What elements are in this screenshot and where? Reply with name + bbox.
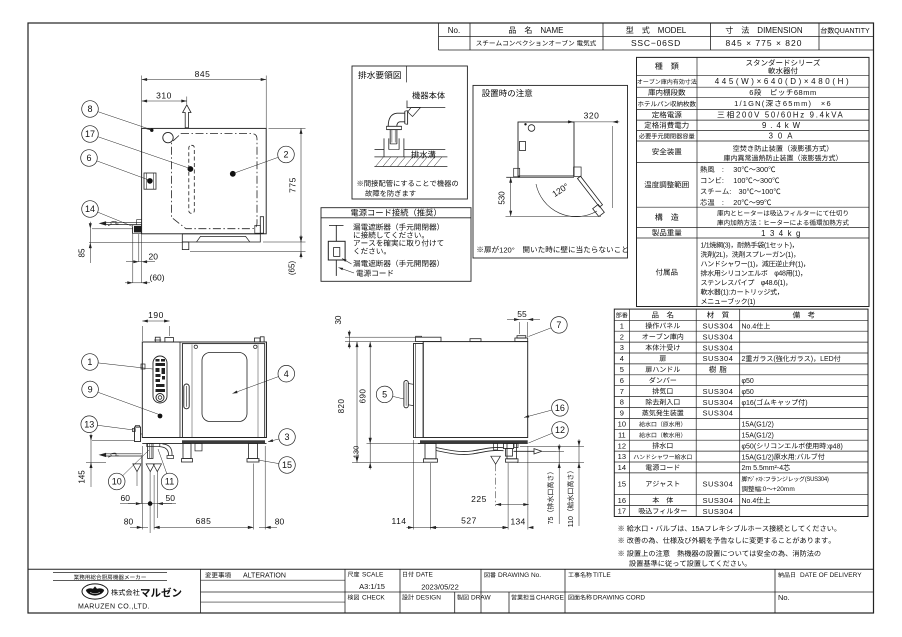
svg-text:30: 30 — [739, 187, 747, 196]
svg-text:φ48.6(1): φ48.6(1) — [761, 280, 785, 287]
svg-text:80: 80 — [124, 517, 134, 527]
svg-text:134: 134 — [510, 517, 525, 527]
svg-text:DATE OF DELIVERY: DATE OF DELIVERY — [800, 572, 862, 579]
svg-text:3: 3 — [284, 432, 289, 442]
svg-text:(1): (1) — [747, 261, 755, 268]
svg-text:SUS304: SUS304 — [702, 480, 733, 489]
svg-text:DIMENSION: DIMENSION — [757, 26, 803, 35]
svg-text:20: 20 — [733, 198, 741, 207]
svg-text:NAME: NAME — [540, 26, 563, 35]
svg-text:(1): (1) — [747, 299, 755, 306]
svg-text:145: 145 — [78, 470, 87, 484]
svg-text:LED: LED — [820, 356, 834, 363]
svg-text:320: 320 — [584, 111, 600, 121]
svg-text:φ16(: φ16( — [742, 400, 757, 407]
svg-text:30A: 30A — [769, 132, 798, 141]
svg-text:): ) — [805, 400, 807, 407]
svg-text:2m 5.5mm²-4: 2m 5.5mm²-4 — [742, 465, 784, 472]
svg-text:(1): (1) — [785, 252, 793, 259]
svg-text:No.4: No.4 — [742, 323, 757, 330]
svg-text:SUS304: SUS304 — [702, 409, 733, 418]
svg-text:8: 8 — [620, 398, 624, 407]
svg-text:9.4kW: 9.4kW — [762, 121, 804, 130]
svg-text::φ48): :φ48) — [826, 443, 843, 450]
svg-text:190: 190 — [148, 310, 164, 320]
svg-text:1/1: 1/1 — [701, 243, 710, 250]
svg-text:(SUS304): (SUS304) — [805, 477, 829, 483]
svg-text:775: 775 — [288, 177, 298, 193]
svg-text:No.4: No.4 — [742, 498, 757, 505]
svg-text:527: 527 — [461, 516, 477, 526]
svg-text:300: 300 — [760, 176, 772, 185]
svg-text:DESIGN: DESIGN — [416, 595, 441, 602]
svg-text::0: :0 — [761, 486, 767, 493]
svg-text:55: 55 — [517, 309, 527, 319]
svg-text:3: 3 — [620, 343, 624, 352]
svg-text:1: 1 — [620, 321, 624, 330]
svg-text:DATE: DATE — [416, 572, 434, 579]
svg-text:φ50(: φ50( — [742, 443, 757, 450]
svg-text:30: 30 — [733, 165, 741, 174]
svg-text:(1): (1) — [792, 271, 800, 278]
svg-text:(1):: (1): — [721, 290, 731, 297]
svg-text:120°: 120° — [499, 245, 515, 254]
svg-text:12: 12 — [555, 425, 565, 435]
svg-text:+20mm: +20mm — [773, 486, 795, 493]
svg-text:SUS304: SUS304 — [702, 321, 733, 330]
svg-text:7: 7 — [556, 320, 561, 330]
svg-text:60: 60 — [121, 493, 131, 503]
svg-text:7: 7 — [620, 387, 624, 396]
svg-text:15A(G1/2): 15A(G1/2) — [742, 432, 774, 439]
svg-text:15A(G1/2): 15A(G1/2) — [742, 422, 774, 429]
svg-text:SUS304: SUS304 — [702, 507, 733, 516]
svg-text:9: 9 — [88, 385, 93, 395]
svg-text:(65): (65) — [288, 261, 297, 276]
svg-text:): ) — [790, 243, 792, 250]
svg-text:2: 2 — [742, 356, 746, 363]
svg-text:75: 75 — [548, 517, 555, 525]
svg-text:ALTERATION: ALTERATION — [243, 573, 286, 580]
svg-text:SUS304: SUS304 — [702, 398, 733, 407]
svg-text:300: 300 — [756, 165, 768, 174]
svg-text:820: 820 — [337, 399, 346, 414]
svg-text:SCALE: SCALE — [362, 572, 384, 579]
svg-text:SUS304: SUS304 — [702, 496, 733, 505]
svg-text:85: 85 — [78, 248, 87, 257]
svg-text:): ) — [811, 356, 813, 363]
svg-text:CHARGE: CHARGE — [536, 595, 564, 602]
svg-text:13: 13 — [84, 419, 94, 429]
svg-text:2: 2 — [620, 332, 624, 341]
svg-text:114: 114 — [391, 516, 406, 526]
svg-text:6: 6 — [620, 376, 624, 385]
svg-text:30: 30 — [334, 315, 343, 324]
svg-text:1/1GN(: 1/1GN( — [734, 99, 765, 108]
svg-text:SUS304: SUS304 — [702, 387, 733, 396]
svg-text:530: 530 — [498, 191, 507, 205]
svg-text:8: 8 — [87, 104, 92, 114]
svg-text:65mm): 65mm) — [783, 99, 812, 108]
svg-text:QUANTITY: QUANTITY — [834, 28, 870, 35]
svg-text:690: 690 — [359, 389, 368, 404]
svg-text:445(W)×640(D)×480(H): 445(W)×640(D)×480(H) — [715, 77, 851, 86]
svg-text:99: 99 — [756, 198, 764, 207]
svg-text::: : — [795, 454, 797, 461]
svg-text:15A(G1/2): 15A(G1/2) — [742, 454, 774, 461]
svg-text:12: 12 — [618, 441, 626, 450]
svg-text::: : — [722, 165, 724, 174]
svg-text:11: 11 — [165, 477, 174, 487]
svg-text:(60): (60) — [150, 273, 165, 283]
svg-text:10: 10 — [112, 477, 122, 487]
svg-text:(2L): (2L) — [714, 252, 725, 259]
svg-text:845 × 775 × 820: 845 × 775 × 820 — [726, 38, 803, 48]
svg-text:2: 2 — [283, 150, 288, 160]
svg-text:φ48: φ48 — [774, 271, 786, 278]
svg-text:16: 16 — [555, 403, 565, 413]
svg-text:SUS304: SUS304 — [702, 354, 733, 363]
svg-text:845: 845 — [195, 69, 211, 79]
svg-text:No.: No. — [448, 26, 460, 35]
svg-text:1: 1 — [87, 357, 92, 367]
svg-text:SUS304: SUS304 — [702, 332, 733, 341]
svg-text:5: 5 — [620, 365, 624, 374]
svg-text:MARUZEN CO.,LTD.: MARUZEN CO.,LTD. — [78, 604, 150, 611]
svg-text:134kg: 134kg — [761, 229, 805, 238]
svg-text:13: 13 — [618, 452, 626, 461]
svg-text:14: 14 — [618, 463, 626, 472]
svg-text:TITLE: TITLE — [593, 572, 611, 579]
svg-text:4: 4 — [620, 354, 624, 363]
svg-text:110: 110 — [568, 516, 575, 527]
svg-text:11: 11 — [618, 430, 626, 439]
svg-text:14: 14 — [85, 204, 95, 214]
svg-text:φ50: φ50 — [742, 389, 754, 396]
svg-text:80: 80 — [275, 517, 285, 527]
svg-text:(1): (1) — [795, 261, 803, 268]
svg-text:5: 5 — [382, 390, 387, 400]
svg-text:200V 50/60Hz 9.4kVA: 200V 50/60Hz 9.4kVA — [736, 111, 844, 120]
svg-text:100: 100 — [733, 176, 745, 185]
svg-text:SUS304: SUS304 — [702, 343, 733, 352]
svg-text:20: 20 — [149, 252, 159, 262]
svg-text:4: 4 — [284, 369, 289, 379]
svg-text:100: 100 — [761, 187, 773, 196]
svg-text:310: 310 — [156, 91, 172, 101]
svg-text:10: 10 — [618, 419, 626, 428]
svg-text:9: 9 — [620, 409, 624, 418]
svg-text:15A: 15A — [692, 524, 705, 533]
svg-text::: : — [722, 176, 724, 185]
svg-text:17: 17 — [85, 129, 95, 139]
svg-text:685: 685 — [196, 516, 212, 526]
svg-text:225: 225 — [471, 494, 487, 504]
svg-text:No.: No. — [778, 593, 790, 602]
svg-text:50: 50 — [166, 493, 176, 503]
svg-text:6: 6 — [749, 88, 754, 97]
svg-text:(3): (3) — [723, 243, 731, 250]
svg-text:DRAW: DRAW — [471, 595, 491, 602]
svg-text:CHECK: CHECK — [362, 595, 385, 602]
svg-text:A3:1/15: A3:1/15 — [359, 582, 385, 591]
svg-text:2023/05/22: 2023/05/22 — [421, 583, 459, 592]
svg-text:SSC−06SD: SSC−06SD — [631, 38, 681, 48]
svg-text::: : — [722, 198, 724, 207]
svg-text:×6: ×6 — [821, 99, 832, 108]
svg-text:68mm: 68mm — [794, 88, 817, 97]
svg-text:DRAWING CORD: DRAWING CORD — [593, 595, 645, 602]
svg-text:(1: (1 — [764, 243, 770, 250]
svg-text:DRAWING No.: DRAWING No. — [498, 572, 541, 579]
svg-text:6: 6 — [86, 153, 91, 163]
svg-text:17: 17 — [618, 507, 626, 516]
svg-text::: : — [729, 187, 731, 196]
svg-text:MODEL: MODEL — [658, 26, 687, 35]
svg-text:16: 16 — [618, 496, 626, 505]
svg-text:15: 15 — [618, 479, 626, 488]
svg-text:130: 130 — [352, 446, 361, 459]
svg-text:φ50: φ50 — [742, 378, 754, 385]
svg-text:15: 15 — [282, 460, 292, 470]
